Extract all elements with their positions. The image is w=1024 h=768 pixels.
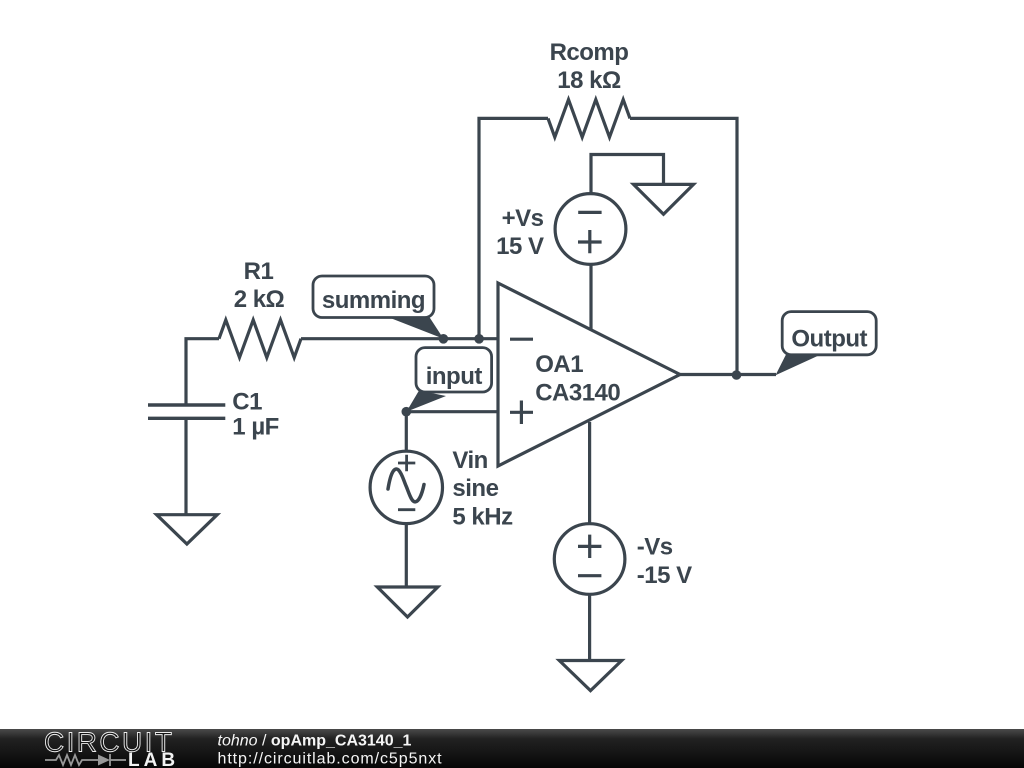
svg-text:C1: C1 — [232, 389, 262, 416]
svg-text:18 kΩ: 18 kΩ — [557, 67, 621, 94]
wire op-amp bottom to -Vs — [588, 422, 591, 524]
wire +Vs to op-amp top — [589, 264, 592, 330]
svg-text:-Vs: -Vs — [637, 534, 673, 561]
Vin minus symbol — [398, 508, 415, 511]
wire input node to op-amp non-inverting input — [406, 410, 499, 413]
wire +Vs top to ground — [591, 155, 664, 194]
wire -Vs to ground — [588, 594, 591, 660]
Vin sine wave — [388, 469, 424, 502]
op-amp OA1 triangle — [498, 283, 680, 466]
op-amp inverting input marker — [510, 338, 533, 341]
svg-text:R1: R1 — [244, 258, 274, 285]
node output junction dot — [732, 370, 742, 380]
resistor Rcomp — [548, 100, 630, 138]
op-amp non-inverting input marker — [510, 401, 533, 425]
-Vs minus symbol — [578, 574, 601, 577]
svg-text:2 kΩ: 2 kΩ — [234, 286, 285, 313]
node feedback junction dot — [474, 334, 484, 344]
svg-text:+Vs: +Vs — [502, 205, 544, 232]
svg-text:-15 V: -15 V — [637, 562, 692, 589]
wire R1 right lead to op-amp inverting input — [301, 337, 499, 340]
wire C1 to ground — [184, 418, 187, 514]
wire Rcomp left lead and left loop vertical — [479, 118, 548, 338]
svg-text:5 kHz: 5 kHz — [452, 504, 513, 531]
wire Rcomp right lead and right loop vertical — [630, 118, 737, 375]
+Vs plus symbol — [578, 230, 602, 253]
ground near +Vs — [634, 184, 694, 214]
ground below Vin — [377, 587, 438, 617]
wire Vin to ground — [405, 523, 408, 587]
svg-text:Output: Output — [791, 325, 867, 352]
logo resistor-diode glyph — [45, 754, 126, 766]
voltage source -Vs circle — [554, 524, 625, 595]
svg-text:Rcomp: Rcomp — [550, 39, 629, 66]
svg-text:tohno / opAmp_CA3140_1: tohno / opAmp_CA3140_1 — [218, 733, 412, 750]
wire input node down to Vin — [405, 412, 408, 452]
footer bar — [0, 729, 1024, 768]
svg-text:summing: summing — [322, 287, 425, 314]
source Vin circle — [370, 451, 442, 523]
Vin plus symbol — [398, 455, 415, 472]
svg-text:Vin: Vin — [452, 447, 487, 474]
svg-text:sine: sine — [452, 475, 498, 502]
svg-text:input: input — [426, 363, 483, 390]
svg-text:LAB: LAB — [128, 750, 179, 768]
+Vs minus symbol — [578, 211, 601, 214]
capacitor C1 bottom plate — [148, 417, 225, 420]
node input junction dot — [402, 407, 412, 417]
flag Output box — [776, 312, 877, 376]
svg-text:CA3140: CA3140 — [535, 379, 620, 406]
voltage source +Vs circle — [555, 194, 626, 265]
svg-text:OA1: OA1 — [535, 351, 583, 378]
ground below C1 — [157, 515, 218, 544]
ground below -Vs — [559, 661, 621, 691]
node summing junction dot — [439, 334, 449, 344]
svg-text:http://circuitlab.com/c5p5nxt: http://circuitlab.com/c5p5nxt — [218, 751, 443, 768]
wire R1 left lead — [186, 339, 219, 405]
flag input box — [406, 348, 491, 412]
wire op-amp output — [680, 373, 776, 376]
resistor R1 — [219, 320, 301, 358]
flag summing box — [313, 276, 444, 339]
svg-text:1 µF: 1 µF — [232, 414, 279, 441]
svg-text:15 V: 15 V — [496, 233, 544, 260]
capacitor C1 top plate — [148, 403, 225, 406]
-Vs plus symbol — [578, 535, 601, 558]
